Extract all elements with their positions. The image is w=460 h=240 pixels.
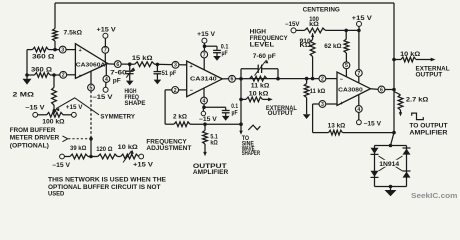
pin 6 CA3060A <box>114 61 121 68</box>
ground <box>222 116 230 121</box>
svg-text:−15 V: −15 V <box>199 117 217 123</box>
node output CA3080 <box>392 88 396 92</box>
wire <box>296 29 305 31</box>
node symmetry wiper <box>53 109 57 113</box>
svg-text:SHAPER: SHAPER <box>242 151 261 157</box>
svg-text:CA3080: CA3080 <box>338 88 363 94</box>
wire <box>241 98 246 100</box>
svg-text:11 kΩ: 11 kΩ <box>251 84 270 90</box>
pin 4 CA3060A <box>103 76 110 83</box>
ground <box>23 79 32 85</box>
svg-text:HIGH: HIGH <box>250 30 266 36</box>
svg-text:6: 6 <box>380 87 383 93</box>
wire <box>156 74 158 80</box>
svg-text:−15V: −15V <box>285 22 300 28</box>
svg-text:3: 3 <box>321 102 324 108</box>
wire bridge left branch <box>374 146 376 187</box>
svg-text:11 kΩ: 11 kΩ <box>310 89 326 95</box>
svg-text:AMPLIFIER: AMPLIFIER <box>193 170 229 176</box>
dashed wire pin5 to optional network <box>90 91 92 139</box>
svg-text:+15 V: +15 V <box>352 16 372 22</box>
node feedback join <box>392 131 396 135</box>
terminal +15V CA3080 <box>357 21 362 26</box>
trimmer arrowhead <box>132 67 135 71</box>
arrow external output mid <box>268 98 273 102</box>
node trimmer tap <box>128 62 132 66</box>
arrow external output right <box>431 58 436 62</box>
node bias junction <box>89 155 93 159</box>
terminal -15V symmetry pot <box>33 112 38 117</box>
wire to bypass cap <box>205 45 218 47</box>
resistor 7.5kohm <box>53 29 58 42</box>
terminal -15V CA3060A <box>103 87 108 92</box>
node dashed junction <box>89 137 93 141</box>
wire down to bias network <box>90 139 92 157</box>
svg-text:−15 V: −15 V <box>364 121 382 127</box>
wire pin7 <box>104 38 106 46</box>
pin 2 CA3060A <box>60 71 67 78</box>
terminal -15V CA3140 <box>201 111 205 115</box>
svg-text:5: 5 <box>90 85 93 91</box>
pointer arrowhead <box>55 108 59 111</box>
square waveform symbol <box>412 113 424 120</box>
wire pin3 to opamp <box>66 49 76 51</box>
svg-text:360 Ω: 360 Ω <box>32 55 55 61</box>
svg-text:LEVEL: LEVEL <box>250 43 275 49</box>
wire pin7 <box>203 43 205 51</box>
wire <box>394 59 401 61</box>
wire pin2 to opamp <box>66 74 75 76</box>
svg-text:3: 3 <box>174 63 177 69</box>
wire apex to pin6 <box>108 63 115 65</box>
wire pin4 from opamp <box>203 88 205 97</box>
wire pin3 to opamp <box>326 103 337 105</box>
resistor 62kohm <box>344 39 349 53</box>
resistor 910kohm <box>310 40 315 57</box>
wire <box>225 107 227 110</box>
svg-text:7.5kΩ: 7.5kΩ <box>64 31 83 37</box>
trimmer arrow line <box>126 68 133 77</box>
wire <box>129 74 131 81</box>
svg-text:360 Ω: 360 Ω <box>31 68 52 74</box>
trimmer arrow line <box>255 61 267 76</box>
wire <box>204 124 206 130</box>
resistor 10kohm mid <box>246 97 263 102</box>
node parallel right <box>276 77 280 81</box>
wire pin2 to opamp <box>178 89 186 91</box>
wire to output divider <box>190 123 241 125</box>
svg-text:10 kΩ: 10 kΩ <box>249 91 269 97</box>
wire apex to pin6 <box>371 88 379 91</box>
svg-text:10 kΩ: 10 kΩ <box>118 145 138 151</box>
svg-text:µF: µF <box>222 51 228 57</box>
svg-text:7: 7 <box>104 48 107 54</box>
dashed wire from buffer arrow <box>68 138 88 140</box>
svg-text:µF: µF <box>232 111 238 117</box>
ground bridge <box>385 190 397 196</box>
svg-text:2: 2 <box>174 88 177 94</box>
resistor 2kohm <box>174 122 190 127</box>
svg-text:HIGH: HIGH <box>125 89 137 95</box>
wire down <box>277 69 279 79</box>
svg-text:5: 5 <box>345 63 348 69</box>
rheostat arrow line <box>123 151 132 163</box>
wire <box>203 104 205 108</box>
wire pin7 CA3080 <box>358 30 360 69</box>
pin 4 CA3140 <box>201 97 208 104</box>
wire pin6 to rail <box>385 89 394 91</box>
open arrow from buffer meter driver <box>63 136 68 142</box>
trimmer arrowhead <box>265 59 268 63</box>
wire pin2 left <box>165 89 172 91</box>
pin 7 CA3080 <box>355 70 362 77</box>
arrow to output amplifier right <box>399 112 402 116</box>
svg-text:2 kΩ: 2 kΩ <box>173 114 187 120</box>
pin 3 CA3080 <box>319 101 326 108</box>
wire down <box>312 104 314 133</box>
resistor 5.1kohm <box>203 130 208 144</box>
wire up to trimmer branch <box>240 69 242 79</box>
node 2Mohm top <box>52 73 56 77</box>
svg-text:(OPTIONAL): (OPTIONAL) <box>10 144 49 150</box>
wire +15 rail <box>326 29 359 31</box>
svg-text:METER DRIVER: METER DRIVER <box>10 136 60 142</box>
svg-text:AMPLIFIER: AMPLIFIER <box>409 131 448 137</box>
svg-text:0.1: 0.1 <box>231 104 238 110</box>
trimmer capacitor plate <box>257 65 259 73</box>
terminal +15V bias network <box>139 154 144 159</box>
pin 7 CA3140 <box>201 51 208 58</box>
resistor 120ohm <box>98 154 118 159</box>
node pin4 <box>202 106 206 110</box>
svg-text:SYMMETRY: SYMMETRY <box>100 114 135 120</box>
wire feedback to output <box>343 132 395 134</box>
svg-text:+15 V: +15 V <box>66 105 83 111</box>
pin 3 CA3060A <box>59 46 66 53</box>
svg-text:OUTPUT: OUTPUT <box>416 73 443 79</box>
triangle waveform symbol <box>248 125 260 130</box>
wire <box>216 46 218 50</box>
wire 2.7k stub <box>394 92 401 95</box>
resistor 11kohm to ground <box>304 84 309 98</box>
wire bridge cross 2 <box>379 156 403 171</box>
svg-text:2: 2 <box>62 73 65 79</box>
ground <box>303 114 311 119</box>
svg-text:CENTERING: CENTERING <box>303 7 340 13</box>
diode 1N914 right bottom <box>403 171 411 178</box>
node ground left <box>25 73 29 77</box>
node 51pF tap <box>156 63 160 67</box>
wire pin3 left <box>313 103 320 105</box>
potentiometer 100kohm centering <box>305 28 326 33</box>
svg-text:7-60 pF: 7-60 pF <box>253 54 276 60</box>
wire pin3 line left <box>27 49 33 51</box>
wire <box>241 68 258 70</box>
trimmer capacitor plate <box>261 65 263 73</box>
pin 2 CA3140 <box>172 87 179 94</box>
svg-text:4: 4 <box>203 99 206 105</box>
svg-text:kΩ: kΩ <box>309 22 319 28</box>
svg-text:7-60: 7-60 <box>110 71 127 77</box>
node 62k tap <box>344 29 348 33</box>
diode 1N914 right top <box>403 148 411 155</box>
wire feedback <box>313 132 329 134</box>
op-amp U3 CA3080 triangle <box>337 72 371 106</box>
pin 5 CA3060A <box>88 84 95 91</box>
node 5.1k tap <box>203 122 207 126</box>
wire <box>54 41 56 50</box>
wire left vertical <box>26 50 28 75</box>
rheostat arrowhead <box>131 150 134 154</box>
svg-text:4: 4 <box>105 77 108 83</box>
pin 6 CA3140 <box>229 75 236 82</box>
svg-text:10 kΩ: 10 kΩ <box>400 52 420 58</box>
svg-text:FROM BUFFER: FROM BUFFER <box>10 128 56 134</box>
svg-text:4: 4 <box>357 107 360 113</box>
wire ground stem <box>26 75 28 79</box>
svg-text:USED: USED <box>48 192 65 198</box>
node bridge top <box>389 144 393 148</box>
wire <box>263 98 270 100</box>
resistor 11kohm series <box>250 76 268 81</box>
wire pin2 to opamp <box>326 78 337 80</box>
wiper arrow onto pot <box>53 110 56 114</box>
terminal -15V bias network <box>60 154 65 159</box>
svg-text:−15 V: −15 V <box>52 163 70 169</box>
pin 2 CA3080 <box>319 75 326 82</box>
svg-text:OUTPUT: OUTPUT <box>268 111 294 117</box>
wire pin7 to opamp <box>358 76 360 83</box>
op-amp U2 CA3140 triangle <box>187 61 223 97</box>
wire <box>117 156 120 158</box>
svg-text:kΩ: kΩ <box>210 141 218 147</box>
svg-text:+15 V: +15 V <box>97 28 116 34</box>
wire <box>358 26 360 30</box>
node 7.5k/pin3 <box>53 48 57 52</box>
node output CA3140 <box>239 77 243 81</box>
svg-text:7: 7 <box>203 52 206 58</box>
svg-text:pF: pF <box>113 78 121 84</box>
wire <box>38 114 47 116</box>
svg-text:62 kΩ: 62 kΩ <box>324 44 341 50</box>
node cap tap <box>203 44 207 48</box>
terminal -15V centering <box>291 28 296 33</box>
wire pin6 to CA3080 pin2 <box>235 78 319 80</box>
resistor 13kohm <box>329 130 343 135</box>
wire pin7 to apex <box>104 53 106 64</box>
svg-text:EXTERNAL: EXTERNAL <box>416 66 450 72</box>
wire <box>345 53 347 62</box>
wire 2M top <box>53 75 55 87</box>
wire <box>225 113 227 116</box>
wire pin4 from apex <box>105 64 107 76</box>
resistor 39kohm <box>70 154 88 159</box>
resistor 10kohm right <box>401 57 416 62</box>
svg-text:THIS NETWORK IS USED WHEN THE: THIS NETWORK IS USED WHEN THE <box>48 178 166 184</box>
arrow to output amplifier <box>203 152 207 156</box>
svg-text:TO OUTPUT: TO OUTPUT <box>409 124 447 130</box>
svg-text:0.1: 0.1 <box>221 44 229 50</box>
terminal +15V symmetry pot <box>72 112 77 117</box>
pin 4 CA3080 <box>355 106 362 113</box>
wire <box>240 124 242 131</box>
wire -15V stub <box>202 107 204 111</box>
resistor 360ohm lower <box>35 73 51 78</box>
pointer line SYMMETRY to wiper <box>56 98 99 115</box>
svg-text:3: 3 <box>61 48 64 54</box>
capacitor 51pF plates <box>154 71 162 73</box>
svg-text:39 kΩ: 39 kΩ <box>70 146 87 152</box>
pin 7 CA3060A <box>102 46 109 53</box>
ground <box>154 80 162 85</box>
svg-text:SeekIC.com: SeekIC.com <box>411 191 458 200</box>
svg-text:FREQUENCY: FREQUENCY <box>250 36 288 42</box>
svg-text:+15 V: +15 V <box>133 163 153 169</box>
pin 5 CA3080 <box>343 62 350 69</box>
svg-text:2.7 kΩ: 2.7 kΩ <box>406 97 429 103</box>
wire <box>49 49 60 51</box>
arrow to sine wave shaper <box>239 131 242 135</box>
wire pin3 to opamp <box>179 64 187 66</box>
svg-text:KΩ: KΩ <box>300 43 312 49</box>
ground <box>213 56 221 61</box>
wire bridge top rail <box>375 145 407 147</box>
wire apex to pin6 <box>222 78 229 80</box>
svg-text:−15 V: −15 V <box>25 106 44 112</box>
wire <box>204 144 206 152</box>
terminal +15V CA3140 <box>202 38 207 43</box>
wire ground stem <box>390 187 392 191</box>
svg-text:FREQ: FREQ <box>125 95 140 101</box>
wire pin4 <box>105 82 107 87</box>
resistor 2Mohm <box>52 87 57 105</box>
node 10k tap <box>239 98 243 102</box>
wire 910k to pin2 node <box>312 57 314 79</box>
svg-text:6: 6 <box>231 77 234 83</box>
svg-text:6: 6 <box>116 62 119 68</box>
wire left rail drop <box>54 3 56 29</box>
wire wiper <box>312 33 314 39</box>
node 11k gnd tap <box>305 77 309 81</box>
capacitor 0.1uF plates <box>213 49 221 51</box>
wire <box>121 63 135 65</box>
resistor 15kohm <box>135 62 155 67</box>
wire bridge right branch <box>406 146 408 187</box>
svg-text:SHAPE: SHAPE <box>125 101 146 107</box>
svg-text:2: 2 <box>321 77 324 83</box>
wire pin7 to opamp <box>203 58 205 70</box>
resistor 2.7kohm <box>398 95 403 110</box>
wire <box>345 30 347 39</box>
svg-text:15 kΩ: 15 kΩ <box>132 56 153 62</box>
svg-text:−15 V: −15 V <box>92 95 112 101</box>
wire <box>165 123 174 125</box>
wire <box>64 156 70 158</box>
svg-text:CA3060A: CA3060A <box>76 62 106 68</box>
diode 1N914 left top <box>371 148 379 155</box>
svg-text:7: 7 <box>357 71 360 77</box>
wire to bypass cap <box>204 106 226 108</box>
wire 2M bottom <box>53 105 55 110</box>
svg-text:FREQUENCY: FREQUENCY <box>146 140 186 146</box>
node +15 rail <box>357 29 361 33</box>
wire <box>358 112 360 120</box>
diode 1N914 left bottom <box>371 171 379 178</box>
wire <box>216 53 218 56</box>
wire down to divider <box>240 79 242 124</box>
pin 3 CA3140 <box>172 61 179 68</box>
svg-text:OPTIONAL BUFFER CIRCUIT IS NOT: OPTIONAL BUFFER CIRCUIT IS NOT <box>48 185 161 191</box>
potentiometer 100kohm <box>47 112 63 117</box>
wire right rail drop to CA3080 output node <box>393 3 395 133</box>
resistor 360ohm upper <box>33 47 49 52</box>
label backing 1N914 <box>378 160 400 167</box>
node 910k join <box>311 77 315 81</box>
wire into bridge <box>391 133 395 146</box>
svg-text:5.1: 5.1 <box>210 135 218 141</box>
wire <box>306 98 308 115</box>
node 10k tap right <box>392 58 396 62</box>
svg-text:+15 V: +15 V <box>197 32 215 38</box>
centering wiper arrow <box>311 33 314 37</box>
wire top feedback rail <box>55 2 394 4</box>
terminal -15V CA3080 <box>357 120 362 125</box>
wire 51pF stub <box>156 64 158 71</box>
node bridge bottom <box>389 185 393 189</box>
wire pin4 from opamp <box>358 95 360 106</box>
wire <box>416 59 432 61</box>
wire <box>155 63 173 65</box>
wire pin5 stub <box>90 71 92 84</box>
wire pin5 to opamp <box>345 69 347 77</box>
wire <box>50 74 60 76</box>
svg-text:13 kΩ: 13 kΩ <box>328 123 346 129</box>
svg-text:120 Ω: 120 Ω <box>96 147 112 153</box>
node sine shaper tap <box>239 122 243 126</box>
pin 6 CA3080 <box>378 86 385 93</box>
wire bridge cross 1 <box>379 156 403 171</box>
svg-text:51 pF: 51 pF <box>162 71 177 77</box>
ground <box>126 81 134 86</box>
svg-text:CA3140: CA3140 <box>190 77 217 83</box>
svg-text:ADJUSTMENT: ADJUSTMENT <box>146 146 191 152</box>
op-amp CA3060A triangle <box>75 44 107 79</box>
rheostat 10kohm <box>121 154 139 159</box>
wire trimmer stub <box>129 64 131 70</box>
trimmer capacitor 7-60pF plates <box>126 70 134 72</box>
wire <box>63 114 72 116</box>
capacitor 0.1uF plates lower <box>222 110 230 112</box>
wire pin2 line left <box>27 74 35 76</box>
svg-text:2 MΩ: 2 MΩ <box>13 92 35 98</box>
wire <box>306 79 308 84</box>
svg-text:1N914: 1N914 <box>379 162 400 168</box>
terminal +15V CA3060A <box>103 33 108 38</box>
wire down <box>164 90 166 124</box>
svg-text:100 kΩ: 100 kΩ <box>42 120 65 126</box>
wire <box>262 68 278 70</box>
wire <box>88 156 98 158</box>
wire <box>400 110 402 113</box>
wire bridge bottom rail <box>375 186 407 188</box>
